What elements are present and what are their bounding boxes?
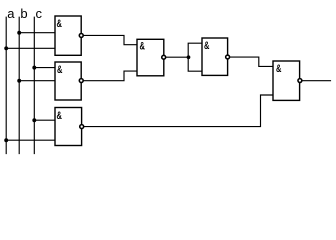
svg-text:&: & (140, 39, 146, 52)
svg-text:&: & (57, 62, 63, 75)
svg-text:a: a (7, 6, 15, 21)
svg-text:b: b (20, 6, 27, 21)
svg-text:&: & (57, 108, 63, 121)
svg-text:c: c (36, 6, 43, 21)
svg-text:&: & (57, 16, 63, 29)
svg-text:&: & (204, 38, 210, 51)
svg-text:&: & (276, 61, 282, 74)
